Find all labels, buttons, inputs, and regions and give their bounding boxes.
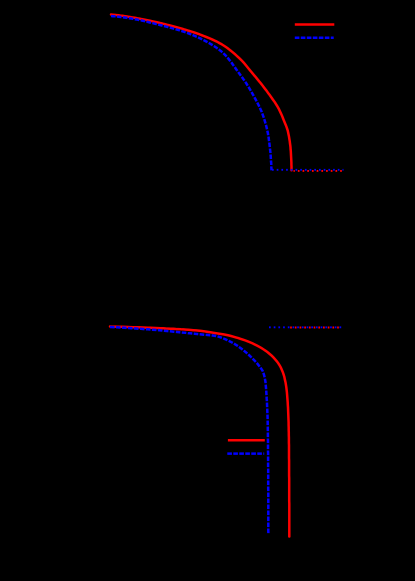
- bottom legend red solid sample: [228, 439, 265, 442]
- bottom legend blue dashed sample: [227, 452, 264, 455]
- top legend red solid sample: [295, 23, 335, 26]
- top panel red dotted zero line beyond Tc: [294, 170, 344, 172]
- top panel blue dotted zero line beyond Tc: [272, 169, 344, 171]
- top panel red solid curve (magnetization, larger Tc): [111, 15, 292, 171]
- top panel blue dashed curve (magnetization, smaller Tc): [111, 16, 272, 170]
- top legend blue dashed sample: [295, 37, 334, 40]
- bottom panel blue dotted zero line beyond Tc: [269, 326, 342, 328]
- bottom panel red dotted zero line beyond Tc: [290, 327, 342, 329]
- bottom panel red solid curve: [110, 327, 289, 537]
- bottom panel blue dashed curve: [110, 327, 268, 534]
